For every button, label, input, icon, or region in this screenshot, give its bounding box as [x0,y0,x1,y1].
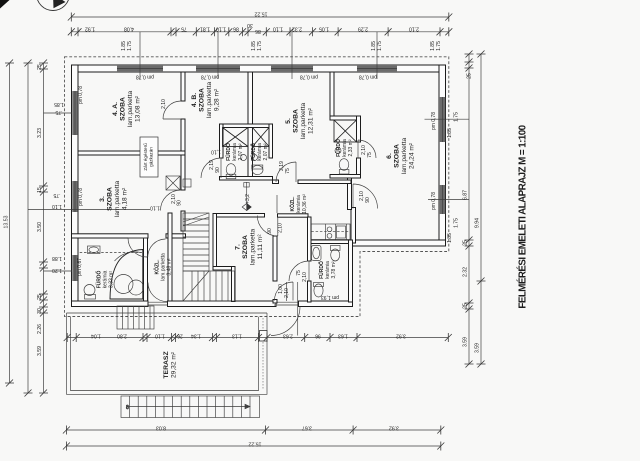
svg-text:75: 75 [181,26,187,32]
svg-text:1.10: 1.10 [150,205,160,211]
svg-text:9.94: 9.94 [475,218,481,228]
svg-text:pm 0,78: pm 0,78 [78,188,84,206]
svg-text:1.13: 1.13 [232,332,242,338]
svg-text:FÜRDŐ: FÜRDŐ [225,143,232,161]
svg-text:+3,2: +3,2 [245,194,251,204]
svg-text:2.80: 2.80 [117,332,127,338]
svg-text:1.63: 1.63 [338,332,348,338]
svg-text:pm 0,67: pm 0,67 [77,258,83,276]
svg-text:pm 0,78: pm 0,78 [300,74,318,80]
svg-text:3.: 3. [99,196,106,202]
svg-text:10,36 m²: 10,36 m² [302,194,308,214]
svg-text:3.23: 3.23 [37,128,43,138]
svg-text:2,10: 2,10 [284,288,290,298]
svg-text:15: 15 [37,187,43,193]
svg-text:1.75: 1.75 [257,41,263,51]
svg-text:6.: 6. [386,153,393,159]
svg-text:FÜRDŐ: FÜRDŐ [96,271,103,289]
svg-text:lam.parketta: lam.parketta [300,103,307,140]
svg-text:1.75: 1.75 [436,41,442,51]
svg-text:3.50: 3.50 [37,222,43,232]
svg-text:8: 8 [126,405,129,411]
svg-text:24,24 m²: 24,24 m² [409,142,416,169]
svg-text:lam.parketta: lam.parketta [401,138,408,175]
svg-text:2,33 m²: 2,33 m² [348,139,354,156]
svg-text:26: 26 [177,332,183,338]
svg-text:pm 0,78: pm 0,78 [431,112,437,130]
svg-text:7.: 7. [235,244,242,250]
svg-text:Zárt égésterű: Zárt égésterű [143,143,148,171]
svg-text:13.53: 13.53 [4,215,10,228]
svg-text:SZOBA: SZOBA [242,235,249,259]
svg-text:lam.parketta: lam.parketta [127,91,134,128]
svg-text:1.85: 1.85 [447,233,453,243]
svg-text:KÖZL.: KÖZL. [154,259,161,275]
svg-text:2.32: 2.32 [292,26,302,32]
svg-text:1.81: 1.81 [200,26,210,32]
svg-text:25: 25 [463,303,469,309]
svg-text:3,78 m²: 3,78 m² [331,261,337,278]
svg-text:FÜRDŐ: FÜRDŐ [250,143,257,161]
svg-text:30: 30 [247,22,253,28]
svg-text:FELMÉRÉSI EMELETI ALAPRAJZ M =: FELMÉRÉSI EMELETI ALAPRAJZ M = 1:100 [517,124,529,308]
svg-text:.75: .75 [53,192,60,198]
svg-text:1.85: 1.85 [447,128,453,138]
svg-text:pm 1,93: pm 1,93 [321,294,339,300]
svg-text:KÖZL.: KÖZL. [289,196,296,212]
svg-text:1,10: 1,10 [211,149,221,155]
svg-text:86: 86 [233,26,239,32]
svg-text:75: 75 [367,152,373,158]
svg-text:FÜRDŐ: FÜRDŐ [318,261,325,279]
svg-text:3.59: 3.59 [37,346,43,356]
svg-text:25: 25 [37,294,43,300]
svg-text:2,10: 2,10 [278,223,284,233]
svg-text:4. B.: 4. B. [191,93,198,107]
svg-text:1.75: 1.75 [454,218,460,228]
svg-text:5.: 5. [285,118,292,124]
svg-text:2,07 m²: 2,07 m² [238,143,244,160]
svg-text:4.08: 4.08 [124,26,134,32]
svg-text:3.92: 3.92 [389,425,399,431]
svg-text:2.29: 2.29 [358,26,368,32]
svg-text:3.59: 3.59 [475,343,481,353]
svg-text:1.10: 1.10 [216,26,226,32]
svg-text:TERASZ: TERASZ [163,351,170,378]
svg-text:.75: .75 [55,109,62,115]
svg-text:3,48 m²: 3,48 m² [167,258,173,275]
svg-text:90: 90 [365,197,371,203]
svg-text:13,08 m²: 13,08 m² [135,95,142,122]
svg-text:96: 96 [315,332,321,338]
svg-text:6.87: 6.87 [463,190,469,200]
svg-text:2.32: 2.32 [463,267,469,277]
svg-text:pm 0,78: pm 0,78 [359,74,377,80]
svg-text:3.67: 3.67 [302,425,312,431]
svg-text:1.85: 1.85 [54,101,64,107]
svg-text:4,18 m²: 4,18 m² [122,187,129,210]
svg-text:1.10: 1.10 [155,332,165,338]
svg-text:pm 0,78: pm 0,78 [201,74,219,80]
svg-text:2.63: 2.63 [283,332,293,338]
svg-text:30: 30 [37,308,43,314]
svg-text:1.75: 1.75 [127,41,133,51]
svg-text:25: 25 [467,73,473,79]
svg-text:1.05: 1.05 [319,26,329,32]
svg-text:90: 90 [267,228,273,234]
svg-text:1.10: 1.10 [273,26,283,32]
svg-text:9,28 m²: 9,28 m² [214,88,221,111]
svg-text:1.75: 1.75 [454,112,460,122]
svg-text:pm 0,78: pm 0,78 [431,192,437,210]
svg-text:pm 0,78: pm 0,78 [78,86,84,104]
svg-text:2.26: 2.26 [37,324,43,334]
svg-text:1.75: 1.75 [377,41,383,51]
svg-text:1.92: 1.92 [85,26,95,32]
svg-text:12,31 m²: 12,31 m² [308,107,315,134]
svg-text:lam.parketta: lam.parketta [206,82,213,119]
svg-text:25: 25 [463,240,469,246]
svg-text:15.22: 15.22 [248,441,261,447]
svg-text:3.92: 3.92 [396,332,406,338]
svg-text:pm 0,78: pm 0,78 [136,74,154,80]
svg-text:SZOBA: SZOBA [394,144,401,168]
svg-text:11,11 m²: 11,11 m² [257,234,264,260]
svg-text:1.88: 1.88 [52,255,62,261]
svg-text:1.10: 1.10 [52,203,62,209]
svg-text:3.59: 3.59 [463,337,469,347]
svg-text:SZOBA: SZOBA [199,88,206,112]
svg-text:90: 90 [215,167,221,173]
svg-text:SZOBA: SZOBA [120,97,127,121]
svg-text:FÜRDŐ: FÜRDŐ [335,139,342,157]
svg-text:4. A.: 4. A. [112,102,119,116]
svg-text:15.22: 15.22 [254,11,267,17]
svg-text:2,07 m²: 2,07 m² [263,143,269,160]
svg-text:1.04: 1.04 [91,332,101,338]
svg-text:gázkazán: gázkazán [149,147,154,167]
svg-text:SZOBA: SZOBA [107,187,114,211]
svg-text:8.03: 8.03 [156,425,166,431]
svg-text:SZOBA: SZOBA [293,109,300,133]
svg-text:75: 75 [285,168,291,174]
svg-text:2,10: 2,10 [161,99,167,109]
svg-text:3,33 m²: 3,33 m² [109,271,115,288]
svg-text:90: 90 [177,200,183,206]
svg-text:29,32 m²: 29,32 m² [171,351,178,378]
svg-text:lam.parketta: lam.parketta [114,181,121,218]
svg-text:1.20: 1.20 [52,267,62,273]
svg-text:2.10: 2.10 [409,26,419,32]
svg-text:86: 86 [255,28,261,34]
svg-text:2,10: 2,10 [302,272,308,282]
svg-text:lam.parketta: lam.parketta [250,229,257,266]
svg-text:25: 25 [37,64,43,70]
svg-text:1.34: 1.34 [191,332,201,338]
